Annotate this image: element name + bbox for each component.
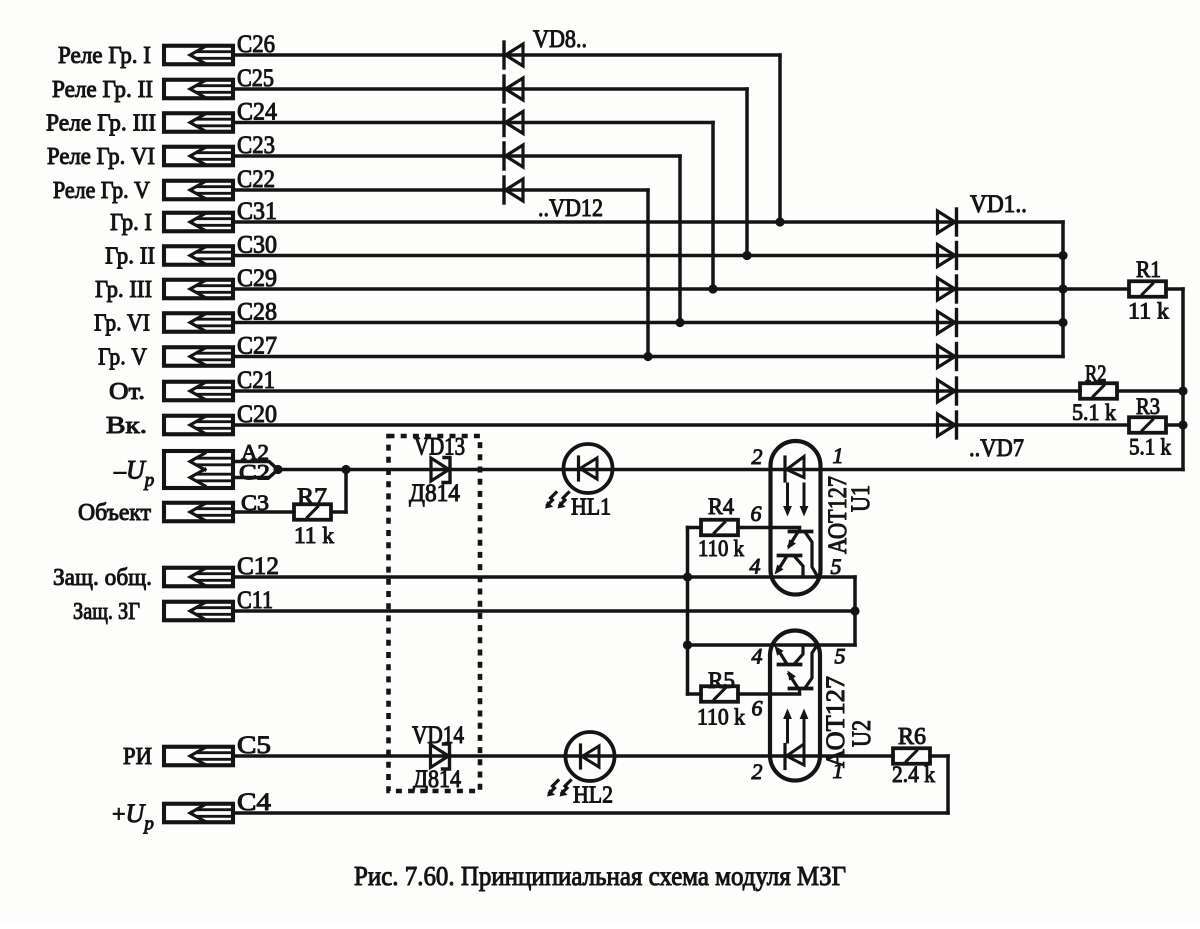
- svg-text:5.1 k: 5.1 k: [1129, 435, 1171, 461]
- svg-text:C28: C28: [237, 299, 277, 326]
- svg-text:2: 2: [752, 759, 763, 784]
- svg-text:2: 2: [752, 444, 763, 469]
- svg-text:Реле Гр. V: Реле Гр. V: [53, 178, 151, 204]
- svg-text:C3: C3: [241, 490, 269, 515]
- svg-text:Гр. VI: Гр. VI: [94, 311, 150, 337]
- svg-text:..VD12: ..VD12: [538, 195, 603, 222]
- svg-text:1: 1: [833, 443, 844, 468]
- svg-text:6: 6: [752, 696, 763, 721]
- svg-text:Защ. общ.: Защ. общ.: [53, 565, 152, 591]
- svg-text:Гр. II: Гр. II: [105, 244, 155, 270]
- svg-text:4: 4: [750, 554, 761, 579]
- svg-text:C25: C25: [237, 65, 274, 92]
- svg-text:Гр. I: Гр. I: [110, 210, 152, 236]
- svg-text:6: 6: [751, 501, 762, 526]
- svg-text:R7: R7: [297, 484, 327, 510]
- svg-text:5: 5: [835, 644, 846, 669]
- svg-text:Реле Гр. III: Реле Гр. III: [46, 111, 156, 137]
- svg-text:C11: C11: [237, 587, 273, 614]
- svg-text:Реле Гр. VI: Реле Гр. VI: [47, 144, 155, 170]
- svg-text:C12: C12: [237, 553, 279, 580]
- svg-text:110 k: 110 k: [697, 705, 745, 731]
- svg-text:C24: C24: [237, 99, 277, 126]
- svg-text:VD14: VD14: [412, 722, 464, 749]
- svg-text:C31: C31: [237, 198, 277, 225]
- svg-text:2.4 k: 2.4 k: [892, 762, 935, 788]
- svg-text:C4: C4: [237, 789, 272, 816]
- svg-text:АОТ127: АОТ127: [821, 676, 850, 768]
- svg-text:R4: R4: [708, 494, 734, 519]
- svg-text:C29: C29: [237, 265, 277, 292]
- svg-text:C5: C5: [237, 732, 271, 759]
- svg-text:VD1..: VD1..: [970, 191, 1027, 218]
- svg-text:Д814: Д814: [413, 766, 461, 793]
- svg-text:РИ: РИ: [123, 744, 152, 770]
- svg-text:C20: C20: [237, 401, 277, 428]
- svg-text:Защ. ЗГ: Защ. ЗГ: [73, 599, 140, 625]
- svg-text:R2: R2: [1085, 361, 1107, 387]
- svg-text:U2: U2: [847, 720, 876, 747]
- svg-text:C2: C2: [239, 460, 270, 485]
- svg-text:VD13: VD13: [414, 434, 465, 461]
- svg-text:Реле Гр. II: Реле Гр. II: [52, 77, 153, 103]
- svg-text:R6: R6: [898, 724, 926, 750]
- svg-text:..VD7: ..VD7: [969, 435, 1024, 462]
- svg-text:VD8..: VD8..: [533, 26, 587, 53]
- svg-text:R3: R3: [1136, 394, 1160, 420]
- svg-text:Рис. 7.60. Принципиальная схем: Рис. 7.60. Принципиальная схема модуля М…: [354, 860, 846, 891]
- svg-text:Гр. III: Гр. III: [95, 277, 152, 303]
- svg-text:Д814: Д814: [409, 480, 460, 507]
- svg-text:C30: C30: [237, 232, 277, 259]
- svg-text:Гр. V: Гр. V: [98, 345, 148, 371]
- svg-text:4: 4: [752, 644, 763, 669]
- svg-text:Реле Гр. I: Реле Гр. I: [58, 43, 151, 69]
- svg-text:Вк.: Вк.: [106, 413, 147, 439]
- svg-text:11 k: 11 k: [1128, 299, 1169, 325]
- svg-text:5: 5: [831, 554, 842, 579]
- svg-text:U1: U1: [846, 485, 875, 512]
- svg-text:C23: C23: [237, 132, 275, 159]
- svg-text:От.: От.: [109, 379, 145, 405]
- svg-text:5.1 k: 5.1 k: [1072, 400, 1116, 426]
- svg-text:R5: R5: [708, 668, 735, 693]
- svg-text:HL1: HL1: [571, 495, 611, 521]
- svg-text:C26: C26: [237, 31, 275, 58]
- svg-text:C22: C22: [237, 166, 275, 193]
- svg-text:R1: R1: [1136, 257, 1161, 283]
- svg-text:C21: C21: [237, 367, 275, 394]
- svg-text:Объект: Объект: [78, 500, 152, 526]
- svg-text:110 k: 110 k: [698, 536, 744, 562]
- svg-text:HL2: HL2: [573, 783, 613, 809]
- svg-text:11 k: 11 k: [294, 523, 334, 549]
- svg-text:C27: C27: [237, 333, 277, 360]
